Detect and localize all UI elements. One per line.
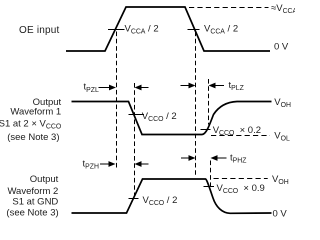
arrow tPZL left [141,87,149,89]
tick waveform2 falling 0.9 crossing [204,186,215,188]
svg-text:(see Note 3): (see Note 3) [6,207,58,218]
tick waveform1 rise 0.2 crossing [201,129,211,131]
svg-text:0 V: 0 V [273,209,288,220]
node VOH dashed line (wf2) [214,178,268,180]
wire output waveform 1 [72,102,272,135]
arrow tPHZ right [181,157,190,159]
svg-text:S1 at GND: S1 at GND [12,197,58,208]
tick OE falling crossing [188,29,200,31]
arrow tPZL right [99,87,111,89]
tick waveform1 falling crossing [129,114,145,116]
wire dashed vertical L3 [195,32,197,178]
arrow tPLZ left [215,85,225,87]
svg-text:0 V: 0 V [274,42,289,53]
wire dashed vertical L2 [134,83,136,197]
wire dashed vertical L1 [116,32,118,170]
wire output waveform 2 [72,179,272,213]
svg-text:OE input: OE input [19,25,60,36]
node VOL dashed line [211,135,270,137]
wire OE input waveform [66,7,270,51]
tick waveform2 rising crossing [129,198,139,200]
svg-text:Waveform 2: Waveform 2 [7,186,58,197]
arrow tPZH right [100,163,110,165]
svg-text:Waveform 1: Waveform 1 [10,107,61,118]
arrow tPZH left [141,163,149,165]
svg-text:(see Note 3): (see Note 3) [7,132,59,143]
node VCCA level dashed line [189,7,269,9]
wire dashed vertical L4 middle [208,79,210,125]
arrow tPLZ right [181,85,190,87]
tick OE rising crossing [108,29,125,31]
svg-text:Output: Output [30,174,59,185]
wire dashed vertical L4 bottom [210,161,212,192]
arrow tPHZ left [217,157,227,159]
